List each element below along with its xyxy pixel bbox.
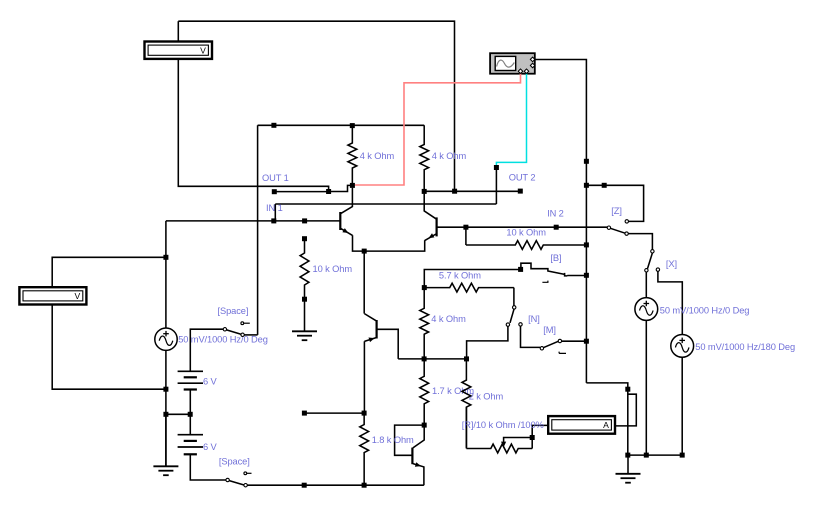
svg-text:50 mV/1000 Hz/0 Deg: 50 mV/1000 Hz/0 Deg <box>178 334 268 344</box>
wire battery B1 top to switch Space <box>190 329 223 371</box>
label 4 k Ohm <box>360 151 395 161</box>
wire switch N alt throw to switch M <box>521 326 541 347</box>
label 10 k Ohm <box>313 264 353 274</box>
ground bottom right <box>616 455 641 483</box>
wire battery B1 bottom to B2 top <box>189 390 191 435</box>
resistor 5.7 k Ohm (horizontal) <box>424 283 514 292</box>
svg-text:V: V <box>200 46 206 56</box>
label 10 k Ohm <box>506 227 546 237</box>
switch [M] contacts <box>540 339 561 350</box>
label V2 <box>660 305 750 315</box>
wire node row y359 <box>398 358 466 360</box>
label B1 6 V <box>203 376 218 386</box>
label [B] <box>550 253 561 263</box>
wire IN1 drop <box>274 204 276 221</box>
wire cyan scope channel B to OUT2 node <box>496 72 526 165</box>
svg-text:[M]: [M] <box>543 325 556 335</box>
resistor 10 k Ohm (feedback, horizontal) <box>466 241 587 250</box>
potentiometer [R]/10 k Ohm /100% <box>466 407 532 453</box>
transistor Q2 (NPN, diff pair right, mirrored) <box>424 194 436 241</box>
node label IN 2 <box>547 208 564 218</box>
wire Q3 base loop <box>377 329 399 359</box>
wire cyan-node drop <box>495 168 497 205</box>
wire 5.7k right drop to switch N <box>513 288 515 306</box>
label V3 <box>695 342 795 352</box>
wire OUT2 rail <box>424 190 520 192</box>
wire AC source V1 bottom to ground <box>165 350 167 466</box>
wire diff emitter rail <box>353 235 425 251</box>
switch [Space] (bottom) <box>226 472 252 487</box>
svg-text:4 k Ohm: 4 k Ohm <box>432 151 467 161</box>
wire VCC vertical from switch Space to rail <box>257 125 259 335</box>
ground under 10k <box>292 299 317 340</box>
ammeter A <box>548 416 615 434</box>
wire top rail from voltmeter V1 to OUT2 drop <box>178 21 454 189</box>
wire right column to ammeter node <box>586 383 627 389</box>
wire ammeter right loop <box>615 394 636 426</box>
svg-text:6 V: 6 V <box>203 376 218 386</box>
AC source V3 50mV/1000Hz/180Deg <box>671 335 694 358</box>
label [N] <box>528 314 540 324</box>
wire switch Space right to VCC column <box>244 334 257 336</box>
svg-text:10 k Ohm: 10 k Ohm <box>313 264 353 274</box>
wire AC source V2 bottom <box>645 320 647 455</box>
svg-text:4 k Ohm: 4 k Ohm <box>431 314 466 324</box>
svg-text:[Space]: [Space] <box>219 456 250 466</box>
wire potentiometer wiper tap <box>504 438 533 443</box>
oscilloscope <box>490 53 535 73</box>
wire switch N common to node row <box>467 326 508 359</box>
svg-text:[N]: [N] <box>528 314 540 324</box>
wire switch Z blade <box>610 228 625 233</box>
node label OUT 2 <box>509 173 536 183</box>
wire battery B2 bottom to switch Space2 <box>190 454 226 480</box>
wire voltmeter V2 bottom branch <box>52 305 166 390</box>
wire voltmeter V1 top lead <box>177 21 179 41</box>
wire node to switch B <box>424 270 520 288</box>
wire ammeter left feed <box>532 425 548 448</box>
transistor Q3 (PNP current mirror, mirrored) <box>364 314 376 343</box>
switch M actuator mark <box>559 352 566 354</box>
wire switch Z lower throw to switch X <box>628 234 652 250</box>
node label OUT 1 <box>262 173 289 183</box>
svg-text:50 mV/1000 Hz/180 Deg: 50 mV/1000 Hz/180 Deg <box>695 342 795 352</box>
wire current-source drop <box>363 251 365 314</box>
resistor 2 k Ohm <box>462 359 471 448</box>
wire switch M blade <box>543 341 558 347</box>
AC source V2 50mV/1000Hz/0Deg <box>635 298 658 321</box>
label potentiometer <box>462 420 544 430</box>
svg-text:6 V: 6 V <box>203 442 218 452</box>
svg-text:[B]: [B] <box>550 253 561 263</box>
svg-text:1.8 k Ohm: 1.8 k Ohm <box>372 435 414 445</box>
label 2 k Ohm <box>469 392 504 402</box>
label 5.7 k Ohm <box>439 270 481 280</box>
wire IN1 horizontal to scope-B net <box>275 203 496 205</box>
wire switch B bump and blade <box>521 263 587 276</box>
svg-text:[Z]: [Z] <box>611 206 622 216</box>
resistor 4 k Ohm (R load 1) <box>348 128 357 183</box>
wire Q2 base rail to switch Z <box>437 226 608 228</box>
label [X] <box>666 259 677 269</box>
switch B actuator mark <box>542 281 548 283</box>
svg-text:50 mV/1000 Hz/0 Deg: 50 mV/1000 Hz/0 Deg <box>660 305 750 315</box>
wire OUT1 connector segment <box>274 191 328 193</box>
label [Space] 2 <box>219 456 250 466</box>
svg-text:OUT 1: OUT 1 <box>262 173 289 183</box>
node OUT1 link to R1 bottom <box>329 185 353 191</box>
wire switch Z upper throw jog <box>586 185 643 221</box>
svg-text:IN 2: IN 2 <box>547 208 564 218</box>
wire voltmeter V2 top branch <box>52 257 166 287</box>
transistor Q1 (NPN, diff pair left) <box>340 188 352 236</box>
wire 1.8k stub row <box>304 412 364 414</box>
label [Z] <box>611 206 622 216</box>
switch [N] contacts <box>506 306 522 327</box>
wire Q4 diode loop <box>395 425 425 455</box>
resistor 4 k Ohm (bias chain) <box>420 288 429 359</box>
switch [X] contacts <box>645 250 660 272</box>
wire voltmeter V1 bottom lead down to OUT1 net <box>178 59 328 192</box>
switch [Space] (supply) <box>223 322 250 337</box>
label 4 k Ohm <box>432 151 467 161</box>
AC source V1 50mV/1000Hz/0Deg <box>155 328 177 350</box>
node label IN 1 <box>266 203 283 213</box>
resistor 4 k Ohm (R load 2) <box>420 125 429 189</box>
wire switch X to AC source V2 <box>645 272 647 298</box>
label B2 6 V <box>203 442 218 452</box>
label V1 <box>178 334 268 344</box>
wire switch M to right column <box>562 340 587 342</box>
resistor 10 k Ohm (base bias) <box>300 239 309 300</box>
wire VCC rail <box>258 124 425 126</box>
wire bottom emitter rail <box>247 484 424 486</box>
svg-text:[Space]: [Space] <box>218 306 249 316</box>
ground left (battery column) <box>153 414 178 475</box>
oscilloscope terminals <box>518 57 535 73</box>
wire left column to AC source V1 <box>165 221 167 328</box>
wire Q3 emitter column <box>363 341 365 413</box>
svg-text:V: V <box>75 291 81 301</box>
svg-text:IN 1: IN 1 <box>266 203 283 213</box>
battery B1 6V <box>178 371 203 389</box>
svg-text:10 k Ohm: 10 k Ohm <box>506 227 546 237</box>
svg-text:4 k Ohm: 4 k Ohm <box>360 151 395 161</box>
label 1.7 k Ohm <box>432 386 474 396</box>
voltmeter V2 (input) <box>19 287 86 304</box>
wire switch X alt throw to AC source V3 <box>658 271 682 334</box>
wire bottom right ground rail <box>628 454 682 456</box>
wire oscilloscope channel to right column <box>535 60 587 383</box>
switch [Z] contacts <box>607 220 628 236</box>
label 4 k Ohm <box>431 314 466 324</box>
wire red scope channel A to OUT1 <box>355 72 521 185</box>
wire Q1 base rail <box>166 220 340 222</box>
voltmeter V1 (OUT1-OUT2) <box>145 42 213 59</box>
wire 10k-h left drop <box>465 227 467 245</box>
resistor 1.7 k Ohm <box>420 359 429 425</box>
svg-text:[X]: [X] <box>666 259 677 269</box>
label [Space] <box>218 306 249 316</box>
label 1.8 k Ohm <box>372 435 414 445</box>
wire AC source V3 bottom <box>681 357 683 455</box>
resistor 1.8 k Ohm <box>360 413 369 485</box>
battery B2 6V <box>178 435 203 455</box>
wire switch X blade <box>648 253 653 269</box>
wire switch N blade <box>510 309 514 323</box>
label [M] <box>543 325 556 335</box>
svg-text:A: A <box>603 420 609 430</box>
wire ammeter node to ground <box>627 389 629 455</box>
wire battery link row <box>166 413 190 415</box>
svg-text:5.7 k Ohm: 5.7 k Ohm <box>439 270 481 280</box>
svg-text:2 k Ohm: 2 k Ohm <box>469 392 504 402</box>
svg-text:[R]/10 k Ohm /100%: [R]/10 k Ohm /100% <box>462 420 544 430</box>
transistor Q4 (NPN diode-connected) <box>412 427 424 485</box>
svg-text:OUT 2: OUT 2 <box>509 173 536 183</box>
